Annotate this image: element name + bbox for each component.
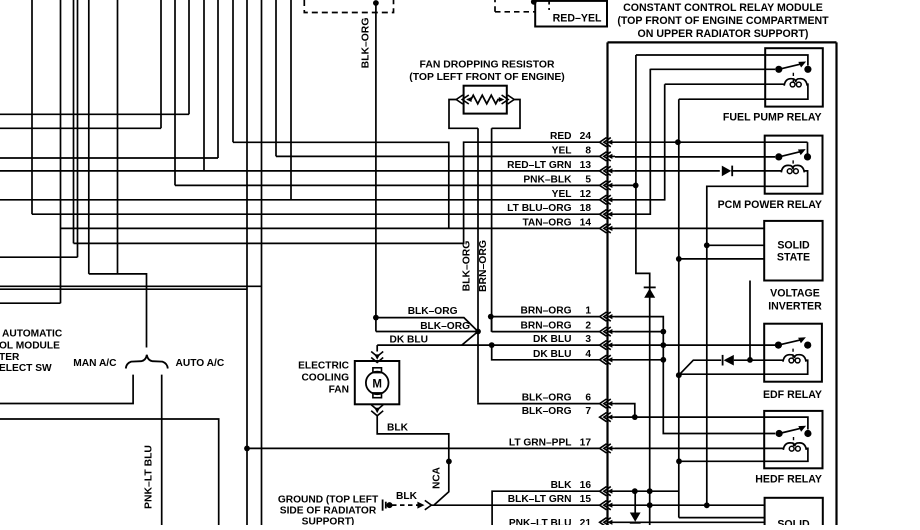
wire pin18 up to fuel pump contact bbox=[615, 69, 650, 214]
wire row y255 bbox=[0, 256, 78, 258]
svg-text:MAN A/C: MAN A/C bbox=[73, 358, 117, 369]
wire DK BLU row3 bbox=[377, 344, 599, 346]
resistor zigzag bbox=[468, 95, 503, 104]
connector pin 7 (BLK-ORG) bbox=[600, 413, 607, 422]
connector pin 16 (BLK) bbox=[600, 487, 607, 496]
svg-text:BRN–ORG: BRN–ORG bbox=[521, 306, 572, 317]
svg-text:STATE: STATE bbox=[777, 252, 810, 264]
wire row y128 bbox=[0, 127, 161, 129]
wire MAN A/C branch bbox=[0, 375, 133, 404]
CCRM module box bbox=[608, 41, 837, 43]
HEDF relay coil bbox=[783, 443, 806, 450]
svg-text:VOLTAGE: VOLTAGE bbox=[770, 288, 820, 300]
connector pin 15 (BLK-LT GRN) bbox=[600, 501, 607, 510]
wire pin5 to junction on fuel pump col bbox=[615, 184, 636, 186]
svg-text:6: 6 bbox=[585, 393, 591, 404]
wire BLK-ORG from resistor left, down to junction J1 bbox=[477, 128, 479, 403]
motor connector chevrons top bbox=[371, 352, 383, 357]
svg-text:BLK–ORG: BLK–ORG bbox=[461, 241, 472, 292]
PCM power relay coil bbox=[781, 165, 804, 172]
solid state voltage inverter box bbox=[764, 221, 822, 281]
wire pin14 to voltage inverter bbox=[615, 227, 764, 229]
wire inverter input 2 bbox=[679, 258, 764, 260]
wire v9 bbox=[203, 0, 205, 171]
svg-text:BRN–ORG: BRN–ORG bbox=[478, 240, 489, 292]
wire v4 to brace feed bbox=[89, 274, 147, 348]
svg-text:GROUND (TOP LEFT: GROUND (TOP LEFT bbox=[278, 495, 379, 506]
svg-text:BLK–LT GRN: BLK–LT GRN bbox=[508, 494, 572, 505]
svg-text:12: 12 bbox=[580, 189, 592, 200]
svg-text:SUPPORT): SUPPORT) bbox=[302, 517, 355, 526]
wire TAN-ORG 14 row from v2 bbox=[61, 227, 600, 229]
svg-text:AUTO A/C: AUTO A/C bbox=[176, 358, 225, 369]
dashed wire into RED-YEL box bbox=[495, 11, 535, 13]
svg-text:SOLID: SOLID bbox=[777, 240, 810, 252]
svg-text:FAN: FAN bbox=[329, 384, 349, 395]
svg-text:CONSTANT CONTROL RELAY MODULE: CONSTANT CONTROL RELAY MODULE bbox=[623, 2, 823, 14]
wire EDF coil drive row with diode bbox=[679, 360, 721, 375]
bottom solid state box (cut off) bbox=[765, 498, 823, 528]
EDF relay switch bbox=[775, 342, 782, 349]
motor connector chevrons bottom bbox=[371, 405, 383, 410]
connector pin 24 (RED) bbox=[600, 138, 607, 147]
svg-text:BLK–ORG: BLK–ORG bbox=[522, 406, 572, 417]
connector pin 17 (LT GRN-PPL) bbox=[600, 444, 607, 453]
wire bus corner into bottom solid state box bbox=[679, 517, 765, 519]
wire row y286 bbox=[0, 285, 262, 287]
wire resistor left lead bbox=[449, 100, 478, 129]
wire J1 diagonal to DK BLU row bbox=[462, 332, 478, 346]
wire pin3 inside to EDF contact bbox=[615, 344, 775, 346]
fuel pump relay box bbox=[765, 48, 823, 106]
svg-text:BLK: BLK bbox=[387, 423, 409, 434]
svg-text:DK BLU: DK BLU bbox=[533, 334, 571, 345]
connector pin 1 (BRN–ORG) bbox=[600, 312, 607, 321]
wire W1 from v11 down to TAN-ORG bbox=[233, 142, 449, 228]
HEDF relay switch bbox=[776, 430, 783, 437]
EDF relay coil bbox=[783, 355, 806, 362]
connector pin 5 (PNK–BLK) bbox=[600, 181, 607, 190]
wire inverter output down to EDF coil row bbox=[749, 281, 751, 360]
wire pin8 to PCM relay contact bbox=[615, 156, 775, 158]
wire v3b bbox=[77, 0, 79, 257]
ground symbol (radiator support) bbox=[382, 500, 384, 511]
svg-text:18: 18 bbox=[580, 203, 592, 214]
svg-text:YEL: YEL bbox=[552, 145, 572, 156]
connector pin 14 (TAN–ORG) bbox=[600, 224, 607, 233]
wire stub with diode D4 down from row16 bbox=[634, 491, 636, 512]
svg-text:(TOP FRONT OF ENGINE COMPARTME: (TOP FRONT OF ENGINE COMPARTMENT bbox=[617, 15, 829, 27]
wire pin16 inside bbox=[615, 490, 679, 492]
wire row y114 bbox=[0, 113, 189, 115]
svg-text:FUEL PUMP RELAY: FUEL PUMP RELAY bbox=[723, 112, 822, 124]
svg-text:TER: TER bbox=[0, 352, 20, 363]
wire pin24 to relays (battery bus) bbox=[615, 141, 808, 143]
wire fp pin2 to left contact bbox=[650, 68, 775, 70]
connector pin 18 (LT BLU–ORG) bbox=[600, 210, 607, 219]
wire YEL 12 row bbox=[0, 199, 600, 201]
svg-text:8: 8 bbox=[585, 145, 591, 156]
wire RED-LT GRN 13 row bbox=[0, 170, 600, 172]
PCM power relay switch bbox=[775, 153, 782, 160]
wire fp col1 down bbox=[636, 55, 650, 525]
wire pin1 inside to bus junction bbox=[615, 317, 775, 434]
wire row1 left (BLK-ORG) with jog to J1 bbox=[373, 315, 379, 321]
wire pin21 inside bbox=[615, 521, 765, 523]
svg-text:16: 16 bbox=[580, 480, 592, 491]
connector pin 13 (RED–LT GRN) bbox=[600, 166, 607, 175]
connector pin 12 (YEL) bbox=[600, 195, 607, 204]
wire HEDF coil return bbox=[679, 448, 808, 461]
wire v13 bbox=[261, 0, 263, 525]
wire BLK-LT GRN 15 row from ground connector bbox=[431, 504, 599, 506]
svg-text:13: 13 bbox=[580, 160, 592, 171]
wire v1 bbox=[31, 0, 33, 214]
svg-text:BLK: BLK bbox=[396, 491, 418, 502]
wire PCM coil return bbox=[707, 171, 808, 505]
wire EDF coil return bbox=[679, 360, 808, 374]
wire row y419 down at x218.7 bbox=[0, 419, 219, 525]
wire fp pin1 top to right contact bbox=[636, 55, 808, 66]
svg-text:BLK–ORG: BLK–ORG bbox=[361, 18, 372, 69]
wire row2 left bbox=[376, 331, 478, 333]
connector pin 3 (DK BLU) bbox=[600, 341, 607, 350]
svg-text:2: 2 bbox=[585, 321, 591, 332]
node at RED-YEL box corner bbox=[531, 0, 537, 5]
wire v4 bbox=[88, 0, 90, 274]
svg-text:COOLING: COOLING bbox=[301, 373, 349, 384]
wire pin2 inside bbox=[615, 331, 663, 333]
wire BLK-ORG 6 row from J1 column bbox=[478, 402, 600, 405]
wire row y289 bbox=[0, 288, 247, 290]
wire BLK 16 row bbox=[492, 491, 599, 525]
wire BLK-ORG vertical from dashed box bbox=[375, 3, 377, 332]
svg-text:HEDF RELAY: HEDF RELAY bbox=[755, 473, 822, 485]
svg-text:PCM POWER RELAY: PCM POWER RELAY bbox=[718, 199, 822, 211]
svg-text:OL MODULE: OL MODULE bbox=[0, 340, 60, 351]
svg-text:M: M bbox=[372, 378, 382, 390]
svg-text:ON UPPER RADIATOR SUPPORT): ON UPPER RADIATOR SUPPORT) bbox=[638, 28, 809, 40]
junction J1 bbox=[475, 329, 481, 335]
svg-text:INVERTER: INVERTER bbox=[768, 301, 822, 313]
svg-text:RED: RED bbox=[550, 131, 572, 142]
svg-text:EDF RELAY: EDF RELAY bbox=[763, 389, 822, 401]
svg-text:RED–YEL: RED–YEL bbox=[553, 13, 602, 25]
svg-text:SIDE OF RADIATOR: SIDE OF RADIATOR bbox=[280, 506, 377, 517]
svg-text:1: 1 bbox=[585, 306, 591, 317]
connector pin 4 (DK BLU) bbox=[600, 355, 607, 364]
wire pin24 into PCM right contact bbox=[807, 142, 809, 153]
wire resistor right lead bbox=[492, 100, 520, 129]
electric cooling fan box bbox=[355, 361, 400, 404]
svg-text:15: 15 bbox=[580, 494, 592, 505]
connector pin 2 (BRN–ORG) bbox=[600, 327, 607, 336]
wire pin4 inside bbox=[615, 359, 663, 361]
wire v12 bbox=[246, 0, 248, 525]
wire AUTO A/C branch bbox=[161, 375, 163, 525]
wire v6 bbox=[160, 0, 162, 128]
dashed BLK wire to ground bbox=[392, 504, 420, 506]
diode D1 (PCM coil feed) bbox=[722, 166, 731, 177]
wire v8 bbox=[188, 0, 190, 114]
svg-text:BLK–ORG: BLK–ORG bbox=[408, 306, 458, 317]
node on BLK-ORG wire at dashed box bbox=[373, 0, 379, 6]
RED-YEL wire label box bbox=[535, 1, 607, 27]
svg-text:14: 14 bbox=[580, 217, 592, 228]
svg-text:NCA: NCA bbox=[432, 467, 443, 489]
wire v5 bbox=[117, 0, 119, 274]
fuel pump relay coil bbox=[784, 79, 807, 86]
diode D2 on column (points up) bbox=[644, 288, 655, 297]
dashed box (module, cut off at top) bbox=[304, 0, 393, 13]
wire pin7 to HEDF right contact bbox=[615, 417, 808, 429]
fuel pump relay switch bbox=[775, 66, 782, 73]
connector pin 6 (BLK-ORG) bbox=[600, 399, 607, 408]
resistor inline connector chevrons left bbox=[456, 95, 463, 104]
wire fp coil return bbox=[679, 84, 808, 99]
wire row y158 bbox=[0, 157, 218, 159]
wire motor BLK bbox=[377, 415, 449, 505]
wire v14 bbox=[275, 0, 277, 156]
wire pin13 through diode to PCM coil bbox=[615, 170, 720, 172]
svg-text:7: 7 bbox=[585, 406, 591, 417]
svg-text:BLK–ORG: BLK–ORG bbox=[420, 321, 470, 332]
HEDF relay box bbox=[764, 411, 822, 468]
svg-text:BLK: BLK bbox=[551, 480, 573, 491]
wire BRN-ORG junctions bbox=[488, 314, 494, 320]
svg-text:4: 4 bbox=[585, 349, 591, 360]
wire pin12 up to fuel pump coil bbox=[615, 84, 665, 200]
wire LT GRN-PPL 17 row bbox=[247, 447, 600, 449]
svg-text:17: 17 bbox=[580, 437, 592, 448]
wire PNK-BLK 5 row from v7 bbox=[175, 184, 600, 186]
wire row2 right bbox=[492, 331, 600, 333]
wire pin15 inside bbox=[615, 504, 765, 506]
wire pin6 jog to pin7 bbox=[615, 404, 635, 418]
wire stub row3 to row4 bbox=[492, 345, 600, 360]
svg-text:21: 21 bbox=[580, 518, 592, 525]
svg-text:BRN–ORG: BRN–ORG bbox=[521, 321, 572, 332]
wire v15 bbox=[290, 0, 292, 200]
connector pin 8 (YEL) bbox=[600, 152, 607, 161]
svg-text:YEL: YEL bbox=[552, 189, 572, 200]
svg-text:DK BLU: DK BLU bbox=[390, 335, 428, 346]
svg-text:5: 5 bbox=[585, 174, 591, 185]
wire fp coil left bbox=[665, 83, 785, 85]
wire row y303 bbox=[0, 302, 61, 304]
wire bus down right side bbox=[678, 99, 680, 517]
wire v7 bbox=[174, 0, 176, 185]
svg-text:3: 3 bbox=[585, 334, 591, 345]
resistor R (fan dropping resistor) box bbox=[464, 86, 507, 114]
svg-text:PNK–LT BLU: PNK–LT BLU bbox=[144, 445, 155, 509]
svg-text:FAN DROPPING RESISTOR: FAN DROPPING RESISTOR bbox=[420, 60, 555, 71]
brace (A/C select) bbox=[126, 355, 168, 369]
wire pin17 to HEDF coil bbox=[615, 447, 784, 449]
wire v10 bbox=[217, 0, 219, 158]
svg-text:LT GRN–PPL: LT GRN–PPL bbox=[509, 437, 572, 448]
svg-text:PNK–LT BLU: PNK–LT BLU bbox=[509, 518, 572, 525]
wire YEL 8 feed from v14 bbox=[276, 155, 600, 157]
svg-text:PNK–BLK: PNK–BLK bbox=[523, 174, 572, 185]
wire v3 bbox=[73, 0, 75, 243]
wire v11 bbox=[232, 0, 234, 142]
svg-text:DK BLU: DK BLU bbox=[533, 349, 571, 360]
svg-text:(TOP LEFT FRONT OF ENGINE): (TOP LEFT FRONT OF ENGINE) bbox=[409, 72, 564, 83]
svg-text:ELECTRIC: ELECTRIC bbox=[298, 361, 350, 372]
diode D3 (EDF, points left) bbox=[724, 355, 734, 366]
motor M (electric cooling fan) bbox=[373, 368, 382, 373]
svg-text:24: 24 bbox=[580, 131, 592, 142]
resistor inline connector chevrons right bbox=[508, 95, 515, 104]
svg-text:RED–LT GRN: RED–LT GRN bbox=[507, 160, 571, 171]
svg-text:LT BLU–ORG: LT BLU–ORG bbox=[507, 203, 571, 214]
svg-text:SOLID: SOLID bbox=[777, 519, 810, 526]
wire v2 bbox=[60, 0, 62, 303]
inline connector chevron at ground wire bbox=[425, 500, 432, 509]
svg-text:TAN–ORG: TAN–ORG bbox=[522, 217, 571, 228]
PCM power relay box bbox=[765, 136, 823, 194]
svg-text:BLK–ORG: BLK–ORG bbox=[522, 393, 572, 404]
wire row1 right bbox=[491, 316, 600, 318]
wire RED 24 feed: v3 right, up at x463.6 bbox=[74, 142, 600, 243]
svg-text:ELECT SW: ELECT SW bbox=[0, 363, 52, 374]
wire LT BLU-ORG 18 row from v1 bbox=[32, 213, 600, 215]
wire DK BLU row down to motor bbox=[376, 345, 378, 351]
EDF relay box bbox=[764, 324, 822, 382]
wire BRN-ORG from resistor right down bbox=[491, 128, 493, 331]
svg-text:AUTOMATIC: AUTOMATIC bbox=[2, 328, 63, 339]
connector pin 21 (PNK-LT BLU) bbox=[600, 518, 607, 527]
wire inverter input 1 bbox=[707, 244, 764, 246]
